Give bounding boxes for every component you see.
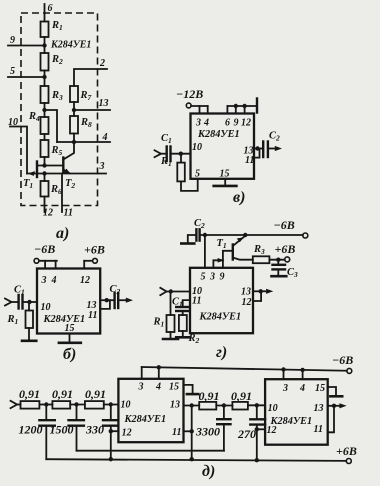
resistor R8: [70, 116, 78, 134]
svg-text:4: 4: [51, 275, 57, 286]
wire input to C1: [12, 301, 18, 303]
svg-text:+6В: +6В: [275, 242, 296, 256]
svg-text:6: 6: [225, 118, 230, 129]
output arrow: [334, 405, 340, 407]
IC box K284UE1: [191, 114, 255, 179]
svg-text:+6В: +6В: [336, 444, 357, 458]
wire R2 to ground: [182, 331, 184, 337]
svg-text:5: 5: [201, 271, 206, 282]
ground bar box1 pin15: [187, 393, 198, 396]
svg-text:К284УЕ1: К284УЕ1: [124, 414, 167, 425]
pin 15 ground box2: [328, 387, 336, 396]
input arrow chevron: [160, 288, 166, 295]
pin 15 ground box1: [184, 385, 193, 394]
svg-text:330: 330: [85, 423, 104, 437]
transistor T2 bar: [62, 158, 64, 173]
wire to next: [216, 405, 232, 407]
pin 11 jumper: [100, 300, 110, 309]
pin 3 lead: [44, 261, 46, 269]
pin 12 wire: [44, 197, 46, 213]
wire R1 to pin 5: [181, 179, 198, 191]
pin 6 wire: [44, 4, 46, 22]
capacitor C2: [263, 142, 268, 158]
wire input to C1: [161, 153, 166, 155]
output node junction: [259, 289, 263, 293]
wire R3 to node: [44, 103, 46, 117]
capacitor 3300: [217, 406, 230, 451]
svg-text:+6В: +6В: [84, 243, 105, 257]
wire R8 to pin 4 line: [73, 134, 75, 143]
pin 3 lead: [199, 106, 201, 114]
input arrow chevron: [155, 150, 162, 157]
svg-text:К284УЕ1: К284УЕ1: [197, 129, 240, 140]
node R1 junction: [179, 152, 183, 156]
wire mid bus: [77, 450, 224, 452]
resistor R4: [41, 117, 49, 134]
svg-text:12: 12: [267, 425, 277, 436]
T1 emitter arrowhead: [28, 171, 36, 176]
node 1200 junction: [44, 402, 48, 406]
svg-text:в): в): [233, 189, 245, 206]
svg-text:3300: 3300: [195, 425, 220, 439]
wire emitter line (T1 emitter / R6 / pin 11 / T2 emitter / pin 3): [27, 173, 106, 175]
pin 12 stub box2: [257, 428, 265, 430]
resistor 0.91 coupling 2: [232, 402, 248, 410]
svg-text:1500: 1500: [50, 423, 74, 437]
IC box 2 K284UE1: [265, 379, 328, 445]
svg-text:12: 12: [43, 208, 53, 219]
svg-text:11: 11: [64, 208, 73, 219]
node 11 junction: [190, 429, 194, 433]
node R6 top junction: [42, 171, 46, 175]
node R1 junction: [169, 289, 173, 293]
pin 13 output wire: [328, 405, 334, 407]
node T1 junction: [243, 233, 247, 237]
pin 15 ground lead: [69, 334, 71, 343]
node pin4 junction: [72, 140, 76, 144]
+6V bus: [46, 459, 346, 461]
pin 4 wire: [57, 141, 110, 143]
wire R1 to ground: [170, 332, 172, 339]
pin 6 lead: [226, 106, 228, 114]
svg-text:0,91: 0,91: [19, 387, 40, 401]
node 270 junction: [255, 403, 259, 407]
input arrow chevron: [11, 401, 18, 408]
capacitor C1: [167, 147, 171, 162]
wire C2 to ground: [188, 235, 196, 242]
pin 10 wire: [10, 127, 27, 174]
svg-text:2: 2: [99, 58, 105, 69]
ground bar R1: [22, 339, 36, 342]
resistor R1: [167, 315, 175, 332]
svg-text:К284УЕ1: К284УЕ1: [199, 312, 242, 323]
svg-text:15: 15: [65, 323, 75, 334]
capacitor C2: [196, 229, 199, 240]
wire to pin 10: [104, 404, 119, 406]
terminal +6V: [285, 257, 290, 262]
svg-text:12: 12: [241, 118, 251, 129]
node R3/R4 junction: [42, 108, 46, 112]
svg-text:15: 15: [220, 169, 230, 180]
dashed IC boundary: [21, 13, 98, 206]
node rail junction: [281, 367, 285, 371]
node 3300 junction: [222, 403, 226, 407]
output node junction: [255, 146, 259, 150]
node 13 junction: [190, 403, 194, 407]
wire -12V to pins 3,4: [191, 105, 208, 107]
svg-text:11: 11: [245, 155, 254, 166]
svg-text:0,91: 0,91: [231, 389, 252, 403]
capacitor C1: [19, 295, 23, 309]
pin 3 lead step: [213, 260, 223, 268]
node rail junction: [300, 368, 304, 372]
wire C1 to pin 10: [23, 301, 37, 303]
ground bar box2 pin15: [330, 395, 342, 398]
svg-text:5: 5: [10, 66, 15, 77]
svg-text:12: 12: [80, 275, 90, 286]
wire R7 to node 13: [73, 102, 75, 116]
node rail junction: [157, 365, 161, 369]
T2 collector wire: [63, 142, 74, 160]
wire to second R: [39, 404, 52, 406]
terminal +6V: [346, 459, 351, 464]
svg-text:11: 11: [88, 310, 97, 321]
wire R1 to ground: [28, 328, 30, 341]
terminal +6V: [93, 258, 98, 263]
ground bar R1: [163, 338, 178, 341]
resistor R1: [177, 163, 185, 182]
pin 9 wire: [8, 45, 45, 47]
pin 4 lead box2: [302, 370, 304, 379]
ground bar R2: [176, 336, 190, 339]
pin 9 lead: [235, 106, 237, 114]
svg-text:−6В: −6В: [274, 218, 295, 232]
node R1 junction: [27, 300, 31, 304]
svg-text:15: 15: [315, 383, 325, 394]
pin 11 jumper: [254, 149, 260, 158]
wire to R1: [180, 154, 182, 163]
svg-text:−6В: −6В: [34, 242, 55, 256]
pin 11 jumper box2: [328, 406, 334, 433]
svg-text:13: 13: [314, 403, 324, 414]
pin 13 wire box1: [184, 405, 200, 407]
node 1500 junction: [74, 402, 78, 406]
pin 4 lead: [55, 261, 57, 269]
svg-text:4: 4: [203, 118, 209, 129]
step arrowhead: [218, 258, 225, 263]
svg-text:0,91: 0,91: [52, 387, 73, 401]
resistor R5: [41, 140, 49, 157]
svg-text:10: 10: [41, 302, 51, 313]
resistor R3: [41, 86, 49, 103]
svg-text:а): а): [56, 225, 69, 242]
pin 11 stub: [183, 300, 190, 306]
svg-text:11: 11: [314, 424, 323, 435]
pin 13 output wire: [254, 148, 262, 150]
wire R2 to R3: [44, 71, 46, 87]
svg-text:0,91: 0,91: [199, 389, 220, 403]
wire input to R 0.91: [17, 404, 21, 406]
pin 15 ground lead: [224, 179, 226, 186]
svg-text:3: 3: [138, 382, 144, 393]
pins 6,9,12 jumper wire: [227, 105, 256, 107]
svg-text:6: 6: [48, 3, 53, 14]
capacitor 330: [103, 405, 118, 460]
svg-text:3: 3: [209, 271, 215, 282]
T1 upper arrowhead: [237, 237, 244, 242]
terminal -6V: [347, 368, 352, 373]
pin 12 lead: [83, 261, 85, 269]
svg-text:13: 13: [170, 400, 180, 411]
resistor R1: [26, 311, 34, 329]
resistor R3: [253, 256, 270, 263]
svg-text:12: 12: [242, 297, 252, 308]
T2 emitter wire: [63, 170, 69, 174]
resistor 0.91 third: [85, 401, 104, 409]
resistor R2: [179, 315, 187, 331]
svg-text:г): г): [216, 344, 227, 361]
resistor 0.91 first: [21, 401, 40, 409]
wire R1 to node 9: [44, 37, 46, 53]
pin 12 lead: [244, 106, 246, 114]
pin 9 lead: [223, 251, 233, 268]
resistor R2: [41, 53, 49, 71]
svg-text:б): б): [63, 346, 76, 363]
output arrow: [119, 299, 126, 301]
node 9 junction: [234, 104, 238, 108]
pin 4 lead: [207, 106, 209, 114]
svg-text:−12В: −12В: [176, 87, 203, 101]
output node junction: [332, 404, 336, 408]
wire to R1: [28, 302, 30, 311]
wire C1 to pin 10: [171, 153, 190, 155]
svg-text:10: 10: [268, 403, 278, 414]
wire R4 to R5: [44, 134, 46, 140]
wire to R6: [44, 174, 46, 182]
svg-text:15: 15: [169, 382, 179, 393]
svg-text:9: 9: [234, 118, 239, 129]
output arrow: [261, 290, 267, 292]
resistor R1: [41, 22, 49, 38]
wire -6V rail: [201, 234, 303, 236]
svg-text:10: 10: [8, 117, 18, 128]
wire node to pin4 rail: [45, 110, 58, 142]
svg-text:10: 10: [192, 142, 202, 153]
T2 emitter arrowhead: [64, 169, 71, 174]
ground bar C2: [181, 242, 194, 245]
wire +6V to pin 12: [84, 260, 92, 262]
resistor R6: [41, 181, 49, 197]
node pin5 junction: [203, 233, 207, 237]
output node junction: [105, 298, 109, 302]
feedback vertical 13-11: [191, 406, 193, 460]
svg-text:9: 9: [220, 271, 225, 282]
svg-text:3: 3: [41, 275, 47, 286]
capacitor C1: [176, 307, 189, 315]
output arrowhead: [339, 403, 346, 408]
chassis bar: [256, 99, 258, 113]
capacitor C3: [273, 260, 286, 276]
T1 upper lead: [233, 236, 246, 246]
node 12 junction: [242, 104, 246, 108]
svg-text:4: 4: [102, 132, 108, 143]
svg-text:11: 11: [192, 296, 201, 307]
output arrowhead: [266, 289, 273, 294]
capacitor 1200: [39, 405, 54, 460]
T1 lower lead to R3: [233, 258, 253, 260]
IC box K284UE1: [190, 268, 253, 333]
wire R3 to +6V: [269, 259, 284, 261]
output arrowhead: [126, 298, 133, 303]
node 5 junction: [42, 75, 46, 79]
node 9 junction: [42, 43, 46, 47]
node C3 junction: [276, 258, 280, 262]
pin 13 output wire: [100, 299, 114, 301]
resistor 0.91 second: [52, 401, 70, 409]
wire to third R: [70, 404, 85, 406]
wire T1 collector to T2 base: [37, 165, 63, 167]
IC box K284UE1: [37, 269, 100, 334]
svg-text:13: 13: [99, 98, 109, 109]
capacitor 1500: [69, 405, 84, 451]
-6V rail: [142, 367, 347, 371]
node bus junction: [255, 458, 259, 462]
svg-text:3: 3: [99, 161, 105, 172]
output arrow: [269, 148, 276, 150]
svg-text:4: 4: [155, 382, 161, 393]
svg-text:13: 13: [241, 287, 251, 298]
pin 4 lead box1: [158, 367, 160, 379]
capacitor C2: [115, 293, 119, 308]
node bus junction: [190, 457, 194, 461]
svg-text:0,91: 0,91: [85, 387, 106, 401]
wire R5 to base line: [44, 157, 46, 166]
wire to R1: [170, 292, 172, 316]
svg-text:10: 10: [121, 400, 131, 411]
pin 11 stub box1: [184, 430, 192, 432]
terminal -6V: [34, 258, 39, 263]
svg-text:12: 12: [122, 428, 132, 439]
terminal -12V: [186, 103, 191, 108]
resistor R7: [70, 86, 78, 102]
svg-text:−6В: −6В: [332, 353, 353, 367]
pin 3 lead box1: [141, 367, 143, 379]
node pin12 junction: [109, 429, 113, 433]
svg-text:3: 3: [195, 118, 201, 129]
svg-text:9: 9: [10, 35, 15, 46]
capacitor 270: [250, 405, 265, 460]
node R5/base junction: [42, 163, 46, 167]
pin 5 lead: [204, 235, 206, 268]
svg-text:5: 5: [195, 169, 200, 180]
svg-text:1200: 1200: [19, 423, 43, 437]
node bus junction: [109, 457, 113, 461]
pin 11 wire: [61, 174, 63, 213]
svg-text:К284УЕ1: К284УЕ1: [50, 40, 91, 51]
node 13 junction: [72, 108, 76, 112]
pin 3 lead box2: [283, 370, 285, 380]
ground bar C3: [272, 275, 287, 278]
node pin12 box2 junction: [255, 427, 259, 431]
pin 2 wire: [74, 69, 107, 86]
input arrow chevron: [5, 299, 12, 306]
pin 13 wire: [74, 109, 110, 111]
ground bar pin 15: [214, 185, 237, 188]
svg-text:11: 11: [172, 427, 181, 438]
IC box 1 K284UE1: [118, 379, 183, 442]
svg-text:4: 4: [299, 383, 305, 394]
node 330 junction: [109, 402, 113, 406]
pin 13 output wire: [253, 290, 261, 292]
pin 12 jumper: [253, 291, 261, 301]
terminal -6V: [303, 233, 308, 238]
transistor T1 bar: [36, 162, 38, 178]
wire to box2 pin 10: [248, 404, 265, 406]
wire -6V to pins 3,4: [39, 260, 57, 262]
ground bar pin 15: [59, 341, 81, 344]
pin 12 stub: [111, 430, 119, 432]
svg-text:д): д): [202, 463, 215, 480]
svg-text:3: 3: [282, 383, 288, 394]
pin 5 wire: [8, 76, 45, 78]
wire input to pin 10: [167, 291, 191, 293]
output arrowhead: [275, 146, 282, 151]
svg-text:270: 270: [237, 427, 256, 441]
transistor T1 bar: [232, 245, 234, 260]
resistor 0.91 coupling: [199, 402, 216, 410]
